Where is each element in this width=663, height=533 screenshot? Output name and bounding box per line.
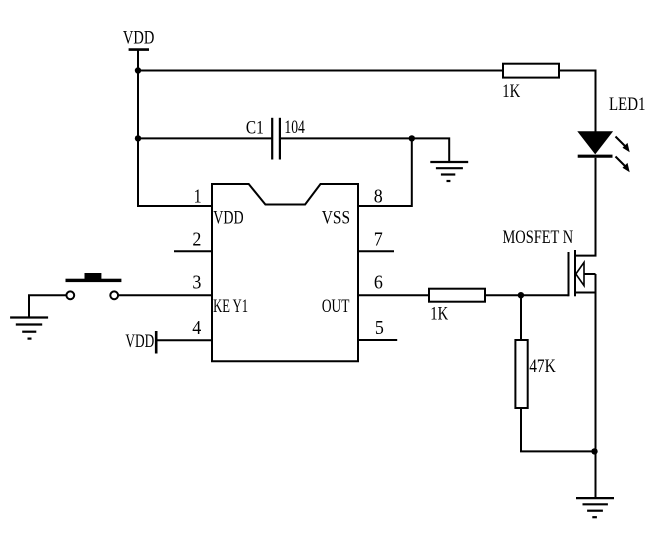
svg-text:5: 5 [375,317,384,339]
wire VDD stem down to pin 1 [138,50,212,206]
ground (bottom right) [576,498,614,517]
pin 7 stub wire [358,250,394,252]
svg-text:3: 3 [192,271,201,293]
wire junction down to 47K [520,295,522,341]
power symbol VDD (pin 4) [125,331,156,354]
wire 47K bottom to source rail [521,407,596,451]
svg-text:2: 2 [192,229,201,251]
wire LED to MOSFET drain [575,158,596,256]
svg-text:1K: 1K [502,81,520,102]
svg-text:KE Y1: KE Y1 [213,296,248,317]
wire resistor to LED corner [558,71,596,133]
svg-text:1: 1 [194,186,202,208]
node junction top rail [135,67,141,73]
capacitor C1 [272,118,280,160]
wire button to pin 3 [118,294,212,296]
wire gate resistor to MOSFET gate [484,294,569,296]
wire to capacitor left plate [138,137,272,139]
svg-text:OUT: OUT [322,296,350,317]
svg-text:4: 4 [192,317,201,339]
resistor 1K (gate) [429,289,485,302]
IC U1 body with notch [212,184,358,361]
svg-text:104: 104 [284,117,305,138]
wire pin 8 riser [358,138,412,206]
resistor 47K [515,340,527,408]
wire capacitor right plate to ground drop [280,138,449,162]
svg-text:C1: C1 [246,117,264,138]
node junction pin8 riser [409,135,415,141]
wire pin 6 to gate resistor [358,294,430,296]
node junction gate/47K [518,292,524,298]
svg-text:47K: 47K [529,356,556,377]
pin 5 stub wire [358,339,397,341]
resistor 1K (top) [503,64,559,78]
wire pin 4 [156,339,212,341]
node junction source/47K [591,448,597,454]
node junction cap wire left [135,135,141,141]
svg-text:6: 6 [374,271,383,293]
svg-text:VDD: VDD [213,207,243,228]
wire MOSFET source down to ground [595,293,597,499]
svg-text:VDD: VDD [123,28,154,49]
push button [66,273,122,299]
svg-text:VDD: VDD [125,331,154,352]
svg-text:7: 7 [374,229,383,251]
power symbol VDD (top) [123,28,154,50]
svg-text:MOSFET N: MOSFET N [503,227,574,248]
ground (left) [10,318,48,339]
wire button to left ground [29,295,66,317]
ground (middle, VSS) [430,162,468,181]
pin 2 stub wire [174,250,212,252]
transistor MOSFET N [569,250,596,296]
svg-text:VSS: VSS [322,207,350,228]
svg-text:8: 8 [374,186,383,208]
svg-text:LED1: LED1 [609,94,646,115]
svg-text:1K: 1K [430,303,448,324]
LED LED1 [578,132,630,173]
wire top rail to resistor [138,70,504,72]
